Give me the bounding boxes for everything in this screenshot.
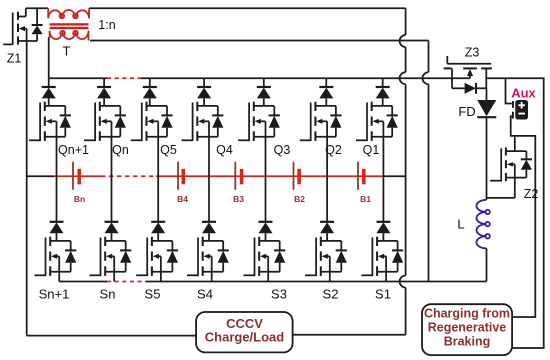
transistor Q2 xyxy=(300,102,342,141)
svg-text:B2: B2 xyxy=(294,194,305,204)
wire battery rail to Sn diode xyxy=(111,176,113,213)
wire top rail transformer primary to right bus xyxy=(89,7,406,9)
wire transformer secondary rail xyxy=(90,40,429,42)
transistor Qn+1 xyxy=(29,102,71,141)
wire diode to Sn drain xyxy=(111,233,113,241)
transistor Z3 xyxy=(444,56,492,94)
svg-text:1:n: 1:n xyxy=(98,18,115,32)
wire diode to Q1 drain xyxy=(382,98,384,106)
wire diode to Q2 drain xyxy=(325,98,327,106)
transistor Q5 xyxy=(131,102,173,141)
diode over Q3 xyxy=(257,78,271,98)
wire Q-row anode rail left part xyxy=(49,77,107,79)
transistor Z2 xyxy=(490,148,532,182)
svg-text:B3: B3 xyxy=(233,194,244,204)
battery B3 xyxy=(234,162,243,190)
wire diode to S4 drain xyxy=(208,233,210,241)
diode over Q2 xyxy=(319,78,333,98)
svg-text:Bn: Bn xyxy=(74,194,85,204)
svg-text:Sn: Sn xyxy=(100,287,116,302)
wire S4 source down-lead xyxy=(211,272,213,282)
wire right bus segment xyxy=(405,47,407,72)
svg-text:Regenerative: Regenerative xyxy=(428,320,507,334)
diode over Q4 xyxy=(197,78,211,98)
svg-text:Z1: Z1 xyxy=(7,52,22,66)
wire Z3 source to outer right bus xyxy=(486,78,543,348)
transistor Qn xyxy=(84,102,126,141)
diode over S4 xyxy=(202,213,216,233)
wire branch down to Aux positive xyxy=(506,78,512,103)
diode over S3 xyxy=(259,213,273,233)
diode over Sn xyxy=(105,213,119,233)
wire battery rail to S1 diode xyxy=(382,176,384,213)
wire FD cathode down to L xyxy=(486,117,488,200)
svg-text:S2: S2 xyxy=(323,287,339,302)
wire battery rail to S5 diode xyxy=(157,176,159,213)
svg-text:Q3: Q3 xyxy=(274,143,291,157)
wire S-row source rail right xyxy=(146,281,487,283)
transistor S2 xyxy=(305,237,347,276)
wire diode to Q4 drain xyxy=(203,98,205,106)
transformer T xyxy=(48,8,89,40)
block Charging from Regenerative Braking xyxy=(422,304,512,355)
wire Qn source down-lead xyxy=(111,137,113,177)
svg-text:Q1: Q1 xyxy=(363,143,380,157)
svg-text:Qn+1: Qn+1 xyxy=(58,143,89,157)
transistor Q1 xyxy=(356,102,398,141)
wire battery rail to S2 diode xyxy=(326,176,328,213)
transistor Sn xyxy=(90,237,132,276)
wire battery rail black left end xyxy=(27,175,54,177)
wire S-row source rail left xyxy=(59,281,107,283)
wire Z1 source down-lead to bottom rail xyxy=(26,41,28,336)
diode over S2 xyxy=(320,213,334,233)
wire hop over Q-row rail xyxy=(423,72,429,84)
transistor Sn+1 xyxy=(35,237,77,276)
svg-text:Z3: Z3 xyxy=(465,46,480,60)
diode over S1 xyxy=(376,213,390,233)
wire right bus segment xyxy=(405,84,407,275)
svg-text:Qn: Qn xyxy=(112,143,129,157)
wire dashed continuation on Q-row rail xyxy=(107,77,141,79)
wire diode to Q3 drain xyxy=(263,98,265,106)
svg-text:Aux: Aux xyxy=(511,85,536,100)
wire Q5 source down-lead xyxy=(157,137,159,177)
wire right bus segment xyxy=(405,8,407,35)
wire diode to S1 drain xyxy=(382,233,384,241)
wire Sn source down-lead xyxy=(113,272,115,282)
svg-text:L: L xyxy=(457,217,464,232)
battery B4 xyxy=(177,162,185,190)
svg-text:Q4: Q4 xyxy=(216,143,233,157)
wire hop over S-row rail xyxy=(400,276,406,288)
wire bottom rail to CCCV box xyxy=(27,335,196,337)
wire hop over Q-row rail xyxy=(400,72,406,84)
svg-text:Charging from: Charging from xyxy=(424,306,510,320)
diode over S5 xyxy=(151,213,165,233)
svg-text:Q2: Q2 xyxy=(325,143,342,157)
wire right bus segment xyxy=(405,288,407,335)
transistor Z1 xyxy=(3,8,43,45)
battery Bn xyxy=(72,162,81,190)
wire Aux negative to right bus xyxy=(511,116,536,317)
svg-text:Braking: Braking xyxy=(444,334,491,348)
wire diode to Qn drain xyxy=(103,98,105,106)
diode over Q5 xyxy=(143,78,157,98)
wire secondary-rail drop to S rail xyxy=(428,84,430,281)
wire diode to S2 drain xyxy=(326,233,328,241)
wire battery rail red xyxy=(54,175,101,177)
wire S3 source down-lead xyxy=(267,272,269,282)
svg-text:S4: S4 xyxy=(197,287,213,302)
svg-text:FD: FD xyxy=(458,104,475,119)
diode over Qn xyxy=(97,78,111,98)
svg-text:Z2: Z2 xyxy=(524,187,539,201)
wire transformer secondary left down-lead xyxy=(48,37,50,78)
svg-text:B1: B1 xyxy=(360,194,371,204)
wire Sn+1 source down-lead xyxy=(58,272,60,282)
diode over Qn+1 xyxy=(42,78,56,98)
svg-text:S3: S3 xyxy=(271,287,287,302)
wire CCCV box to right vertical xyxy=(293,334,406,336)
diode over Q1 xyxy=(376,78,390,98)
wire Z2 source to L top xyxy=(487,197,515,199)
wire battery rail to S3 diode xyxy=(265,176,267,213)
svg-text:Q5: Q5 xyxy=(160,143,177,157)
diode FD xyxy=(477,88,496,117)
wire hop over secondary rail xyxy=(400,35,406,47)
wire diode to S5 drain xyxy=(157,233,159,241)
wire L bottom to S rail xyxy=(486,248,488,281)
wire S1 source down-lead xyxy=(385,272,387,282)
svg-text:S5: S5 xyxy=(145,287,161,302)
svg-text:Sn+1: Sn+1 xyxy=(39,287,70,302)
diode over Sn+1 xyxy=(50,213,64,233)
wire battery rail to Sn+1 diode xyxy=(56,176,58,213)
wire Aux node to Z2 drain xyxy=(514,136,516,152)
svg-text:Charge/Load: Charge/Load xyxy=(205,330,285,345)
wire diode to Q5 drain xyxy=(149,98,151,106)
battery B2 xyxy=(293,162,301,190)
svg-text:B4: B4 xyxy=(177,194,188,204)
wire battery rail to S4 diode xyxy=(208,176,210,213)
battery Aux xyxy=(512,100,528,120)
transistor Q4 xyxy=(182,102,224,141)
transistor S3 xyxy=(244,237,286,276)
wire S5 source down-lead xyxy=(160,272,162,282)
wire Q-row anode rail right part xyxy=(141,77,470,79)
wire dashed continuation on battery rail xyxy=(101,175,156,177)
wire Z1 drain to transformer primary xyxy=(26,7,48,9)
wire diode to Sn+1 drain xyxy=(56,233,58,241)
svg-text:T: T xyxy=(63,44,71,59)
transistor S4 xyxy=(187,237,229,276)
wire battery rail red right xyxy=(156,175,383,177)
wire diode to Qn+1 drain xyxy=(48,98,50,106)
block CCCV Charge/Load xyxy=(196,312,293,352)
battery B1 xyxy=(357,162,366,190)
transistor S5 xyxy=(136,237,178,276)
wire Q3 source down-lead xyxy=(265,137,267,177)
wire Q1 source down-lead xyxy=(382,137,384,177)
wire dashed continuation on S-row rail xyxy=(107,281,146,283)
wire Q4 source down-lead xyxy=(208,137,210,177)
wire Z2 source down xyxy=(514,178,516,198)
transistor S1 xyxy=(361,237,403,276)
inductor L xyxy=(476,200,486,249)
wire diode to S3 drain xyxy=(265,233,267,241)
wire S2 source down-lead xyxy=(329,272,331,282)
wire secondary-rail drop segment xyxy=(428,41,430,73)
wire battery rail black right end xyxy=(383,175,405,177)
transistor Q3 xyxy=(238,102,280,141)
wire Qn+1 source down-lead xyxy=(56,137,58,177)
svg-text:S1: S1 xyxy=(375,287,391,302)
wire Q2 source down-lead xyxy=(326,137,328,177)
